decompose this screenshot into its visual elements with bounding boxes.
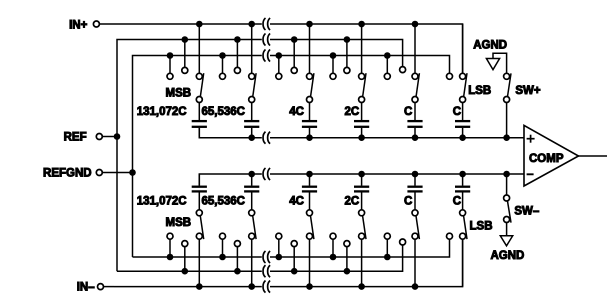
junction REFGND / REFGND vertical bbox=[129, 169, 136, 176]
svg-text:C: C bbox=[453, 106, 461, 118]
REF contact stub (bottom), MSB (131,072C) bbox=[184, 247, 186, 272]
junction IN+ bus, 2C bit bbox=[358, 21, 365, 28]
wire IN&#8722; bus (left segment) bbox=[114, 286, 262, 288]
wire SW&#8722; contact to AGND bbox=[506, 223, 508, 236]
wire capacitor to bottom rail, LSB C bit bbox=[462, 174, 464, 186]
svg-text:LSB: LSB bbox=[468, 85, 491, 97]
capacitor C (top array) bbox=[407, 120, 422, 122]
junction bottom rail, LSB C bit bbox=[459, 171, 466, 178]
wire capacitor to bottom rail, C bit bbox=[414, 174, 416, 186]
wire bottom rail to SW&#8722; pole bbox=[506, 174, 508, 195]
junction bottom rail, C bit bbox=[412, 171, 419, 178]
bottom switch input contact, 2C bit bbox=[359, 233, 365, 239]
REFGND contact stub (top), C bit bbox=[386, 56, 388, 74]
wire capacitor to top rail, MSB (131,072C) bbox=[198, 128, 200, 138]
junction IN+ bus, 4C bit bbox=[306, 21, 313, 28]
junction top rail, C bit bbox=[412, 134, 419, 141]
capacitor 65,536C (bottom array) bbox=[244, 186, 259, 188]
capacitor C (bottom array) bbox=[407, 186, 422, 188]
bottom switch feed from IN&#8722; bus, MSB (131,072C) bbox=[198, 239, 200, 286]
wire capacitor to top rail, 2C bit bbox=[361, 128, 363, 138]
contact at lower REF bus end bbox=[400, 239, 406, 245]
top switch pole, MSB (131,072C) bbox=[196, 97, 202, 103]
junction IN+ bus, MSB (131,072C) bbox=[196, 21, 203, 28]
REF contact stub (top), 65,536C bit bbox=[236, 40, 238, 68]
bottom switch arm, MSB (131,072C) bbox=[200, 216, 203, 239]
bottom switch feed from IN&#8722; bus, 2C bit bbox=[361, 239, 363, 286]
REFGND contact stub (bottom), MSB (131,072C) bbox=[169, 239, 171, 257]
top switch arm, 65,536C bit bbox=[253, 73, 256, 97]
wire pole to capacitor, LSB C bit (bottom) bbox=[462, 193, 464, 210]
wire top summing rail to comparator + (left segment) bbox=[199, 128, 261, 138]
wire capacitor to top rail, C bit bbox=[414, 128, 416, 138]
svg-text:65,536C: 65,536C bbox=[202, 106, 245, 118]
REF contact stub (bottom), 65,536C bit bbox=[236, 247, 238, 272]
wire SW+ pole to top rail bbox=[506, 103, 508, 138]
svg-text:IN–: IN– bbox=[77, 282, 96, 294]
svg-text:REFGND: REFGND bbox=[43, 168, 92, 180]
input terminal IN+ bbox=[93, 21, 99, 27]
top switch arm, C bit bbox=[416, 73, 419, 97]
break in REFGND bus bbox=[263, 50, 265, 62]
junction IN+ bus, C bit bbox=[412, 21, 419, 28]
wire REFGND terminal to node bbox=[102, 172, 132, 174]
top switch feed from IN+ bus, 4C bit bbox=[309, 24, 311, 73]
break in bottom summing rail bbox=[263, 168, 265, 180]
svg-text:MSB: MSB bbox=[166, 217, 192, 229]
contact at lower REFGND bus end bbox=[447, 233, 453, 239]
REFGND contact stub (top), 65,536C bit bbox=[222, 56, 224, 74]
svg-text:65,536C: 65,536C bbox=[202, 195, 245, 207]
wire REFGND bus (right segment, bends down to end contact) bbox=[270, 56, 450, 74]
junction top rail, 2C bit bbox=[358, 134, 365, 141]
break in IN+ bus bbox=[263, 18, 265, 30]
wire REF bus (right segment, bends down to end contact) bbox=[270, 40, 403, 67]
bottom switch arm, 2C bit bbox=[363, 216, 366, 239]
junction top rail / SW+ bbox=[503, 134, 510, 141]
wire capacitor to top rail, 4C bit bbox=[309, 128, 311, 138]
comparator + input pin bbox=[527, 138, 535, 140]
wire pole to capacitor, 65,536C bit bbox=[251, 103, 253, 121]
capacitor 131,072C (top array) bbox=[192, 120, 207, 122]
switch SW&#8722; arm bbox=[507, 201, 511, 223]
bottom switch input contact, LSB C bit bbox=[460, 233, 466, 239]
wire capacitor to bottom rail, 65,536C bit bbox=[251, 174, 253, 186]
wire capacitor to bottom rail, 2C bit bbox=[361, 174, 363, 186]
bottom switch pole, MSB (131,072C) bbox=[196, 210, 202, 216]
top switch input contact, 4C bit bbox=[307, 73, 313, 79]
break in lower REFGND bus bbox=[263, 251, 265, 263]
bottom switch pole, C bit bbox=[412, 210, 418, 216]
wire capacitor to bottom rail, MSB (131,072C) bbox=[198, 174, 200, 186]
junction bottom rail, 4C bit bbox=[306, 171, 313, 178]
wire capacitor to top rail, 65,536C bit bbox=[251, 128, 253, 138]
wire pole to capacitor, 4C bit bbox=[309, 103, 311, 121]
junction IN+ bus, 65,536C bit bbox=[248, 21, 255, 28]
svg-text:C: C bbox=[404, 195, 412, 207]
junction IN&#8722; bus, MSB (131,072C) bbox=[196, 283, 203, 290]
wire pole to capacitor, LSB C bit bbox=[462, 103, 464, 121]
wire pole to capacitor, MSB (131,072C) bbox=[198, 103, 200, 121]
junction bottom rail / SW&#8722; bbox=[503, 171, 510, 178]
wire lower REF bus (left segment) bbox=[117, 270, 262, 272]
REFGND contact stub (top), 2C bit bbox=[332, 56, 334, 74]
wire pole to capacitor, 65,536C bit (bottom) bbox=[251, 193, 253, 210]
svg-text:MSB: MSB bbox=[166, 87, 192, 99]
svg-text:REF: REF bbox=[64, 132, 87, 144]
svg-text:LSB: LSB bbox=[470, 221, 493, 233]
top switch pole, C bit bbox=[412, 97, 418, 103]
switch SW+ pole bbox=[504, 97, 510, 103]
wire IN&#8722; bus (right segment, bends up into LSB-cap switch) bbox=[270, 239, 463, 286]
bottom switch pole, LSB C bit bbox=[460, 210, 466, 216]
junction top rail, 65,536C bit bbox=[248, 134, 255, 141]
ground symbol AGND (top) bbox=[486, 59, 499, 70]
comparator &#8722; input pin bbox=[527, 173, 534, 175]
top switch feed from IN+ bus, LSB C bit bbox=[462, 24, 464, 73]
junction IN&#8722; bus, 65,536C bit bbox=[248, 283, 255, 290]
capacitor C (bottom array) bbox=[455, 186, 470, 188]
top switch input contact, LSB C bit bbox=[460, 73, 466, 79]
wire REF terminal to node bbox=[102, 136, 117, 138]
bottom switch feed from IN&#8722; bus, LSB C bit bbox=[462, 239, 464, 286]
svg-text:C: C bbox=[404, 106, 412, 118]
junction top rail, 4C bit bbox=[306, 134, 313, 141]
contact at REFGND bus end bbox=[447, 73, 453, 79]
junction bottom rail, 65,536C bit bbox=[248, 171, 255, 178]
break in REF bus bbox=[263, 34, 265, 46]
wire REFGND vertical (down to lower REFGND bus) bbox=[132, 173, 134, 258]
wire lower REF bus (right segment, bends up to end contact) bbox=[270, 245, 403, 271]
wire IN+ terminal to bus bbox=[99, 23, 110, 25]
wire pole to capacitor, C bit (bottom) bbox=[414, 193, 416, 210]
svg-text:AGND: AGND bbox=[473, 40, 507, 52]
input terminal IN&#8722; bbox=[98, 284, 104, 290]
bottom switch pole, 65,536C bit bbox=[249, 210, 255, 216]
wire comparator output bbox=[579, 155, 607, 157]
svg-text:AGND: AGND bbox=[491, 250, 525, 262]
bottom switch arm, 4C bit bbox=[311, 216, 314, 239]
junction REF / REF vertical bbox=[114, 133, 121, 140]
top switch input contact, 2C bit bbox=[359, 73, 365, 79]
top switch feed from IN+ bus, C bit bbox=[414, 24, 416, 73]
top switch pole, 4C bit bbox=[307, 97, 313, 103]
ground symbol AGND (bottom) bbox=[500, 236, 512, 246]
capacitor 2C (bottom array) bbox=[354, 186, 369, 188]
REFGND contact stub (top), 4C bit bbox=[278, 56, 280, 74]
wire AGND to SW+ contact bbox=[493, 53, 507, 73]
top switch pole, 2C bit bbox=[359, 97, 365, 103]
capacitor C (top array) bbox=[455, 120, 470, 122]
svg-text:2C: 2C bbox=[345, 106, 360, 118]
switch SW+ arm bbox=[507, 73, 511, 97]
top switch arm, 2C bit bbox=[363, 73, 366, 97]
REFGND contact stub (bottom), 65,536C bit bbox=[222, 239, 224, 257]
top switch arm, MSB (131,072C) bbox=[200, 73, 203, 97]
top switch arm, 4C bit bbox=[311, 73, 314, 97]
top switch pole, 65,536C bit bbox=[249, 97, 255, 103]
svg-text:2C: 2C bbox=[345, 195, 360, 207]
REF contact stub (top), 2C bit bbox=[346, 40, 348, 68]
wire REF bus (left segment, from REF vertical) bbox=[117, 40, 262, 137]
bottom switch input contact, MSB (131,072C) bbox=[196, 233, 202, 239]
wire pole to capacitor, 2C bit bbox=[361, 103, 363, 121]
wire IN&#8722; terminal to bus bbox=[104, 286, 115, 288]
input terminal REFGND bbox=[96, 170, 102, 176]
bottom switch arm, LSB C bit bbox=[464, 216, 467, 239]
REF contact stub (top), MSB (131,072C) bbox=[184, 40, 186, 68]
bottom switch pole, 2C bit bbox=[359, 210, 365, 216]
svg-text:IN+: IN+ bbox=[69, 19, 88, 31]
svg-text:4C: 4C bbox=[289, 195, 304, 207]
switch SW+ contact bbox=[504, 73, 510, 79]
svg-text:131,072C: 131,072C bbox=[137, 195, 187, 207]
REF contact stub (top), 4C bit bbox=[293, 40, 295, 68]
REFGND contact stub (bottom), 4C bit bbox=[278, 239, 280, 257]
wire top summing rail (right segment) bbox=[270, 137, 524, 139]
top switch input contact, 65,536C bit bbox=[249, 73, 255, 79]
capacitor 131,072C (bottom array) bbox=[192, 186, 207, 188]
capacitor 4C (bottom array) bbox=[302, 186, 317, 188]
wire pole to capacitor, 4C bit (bottom) bbox=[309, 193, 311, 210]
top switch pole, LSB C bit bbox=[460, 97, 466, 103]
bottom switch feed from IN&#8722; bus, 65,536C bit bbox=[251, 239, 253, 286]
input terminal REF bbox=[96, 134, 102, 140]
wire IN+ bus (left segment) bbox=[110, 23, 262, 25]
wire pole to capacitor, C bit bbox=[414, 103, 416, 121]
comparator COMP bbox=[524, 125, 579, 186]
svg-text:131,072C: 131,072C bbox=[137, 106, 187, 118]
top switch feed from IN+ bus, MSB (131,072C) bbox=[198, 24, 200, 73]
top switch feed from IN+ bus, 2C bit bbox=[361, 24, 363, 73]
wire pole to capacitor, MSB (131,072C) (bottom) bbox=[198, 193, 200, 210]
wire capacitor to top rail, LSB C bit bbox=[462, 128, 464, 138]
junction IN&#8722; bus, C bit bbox=[412, 283, 419, 290]
REF contact stub (bottom), 2C bit bbox=[346, 247, 348, 272]
svg-text:SW–: SW– bbox=[514, 205, 540, 217]
junction bottom rail, 2C bit bbox=[358, 171, 365, 178]
bottom switch feed from IN&#8722; bus, C bit bbox=[414, 239, 416, 286]
break in top summing rail bbox=[263, 132, 265, 144]
bottom switch pole, 4C bit bbox=[307, 210, 313, 216]
switch SW&#8722; pole bbox=[504, 195, 510, 201]
svg-text:4C: 4C bbox=[289, 106, 304, 118]
top switch arm, LSB C bit bbox=[464, 73, 467, 97]
top switch feed from IN+ bus, 65,536C bit bbox=[251, 24, 253, 73]
bottom switch feed from IN&#8722; bus, 4C bit bbox=[309, 239, 311, 286]
REF contact stub (bottom), 4C bit bbox=[293, 247, 295, 272]
break in IN&#8722; bus bbox=[263, 281, 265, 293]
switch SW&#8722; contact bbox=[504, 217, 510, 223]
svg-text:COMP: COMP bbox=[529, 153, 564, 165]
wire IN+ bus (right segment, bends down into LSB-cap switch) bbox=[270, 24, 463, 73]
bottom switch arm, 65,536C bit bbox=[253, 216, 256, 239]
wire REF vertical (down to lower REF bus) bbox=[116, 137, 118, 272]
junction IN&#8722; bus, 4C bit bbox=[306, 283, 313, 290]
wire REFGND bus (left segment, from REFGND vertical) bbox=[133, 56, 262, 173]
svg-text:SW+: SW+ bbox=[515, 85, 541, 97]
top switch input contact, MSB (131,072C) bbox=[196, 73, 202, 79]
REFGND contact stub (top), MSB (131,072C) bbox=[169, 56, 171, 74]
REFGND contact stub (bottom), C bit bbox=[386, 239, 388, 257]
svg-text:C: C bbox=[453, 195, 461, 207]
REFGND contact stub (bottom), 2C bit bbox=[332, 239, 334, 257]
bottom switch input contact, 65,536C bit bbox=[249, 233, 255, 239]
bottom switch arm, C bit bbox=[416, 216, 419, 239]
capacitor 4C (top array) bbox=[302, 120, 317, 122]
bottom switch input contact, 4C bit bbox=[307, 233, 313, 239]
bottom switch input contact, C bit bbox=[412, 233, 418, 239]
wire pole to capacitor, 2C bit (bottom) bbox=[361, 193, 363, 210]
capacitor 65,536C (top array) bbox=[244, 120, 259, 122]
contact at REF bus end bbox=[400, 67, 406, 73]
wire capacitor to bottom rail, 4C bit bbox=[309, 174, 311, 186]
wire lower REFGND bus (right segment, bends up to end contact) bbox=[270, 239, 450, 257]
capacitor 2C (top array) bbox=[354, 120, 369, 122]
top switch input contact, C bit bbox=[412, 73, 418, 79]
junction IN&#8722; bus, 2C bit bbox=[358, 283, 365, 290]
wire bottom summing rail (right segment) bbox=[270, 173, 524, 175]
junction top rail, LSB C bit bbox=[459, 134, 466, 141]
wire lower REFGND bus (left segment) bbox=[133, 256, 262, 258]
wire bottom summing rail to comparator &#8722; (left segment) bbox=[199, 174, 261, 186]
break in lower REF bus bbox=[263, 265, 265, 277]
